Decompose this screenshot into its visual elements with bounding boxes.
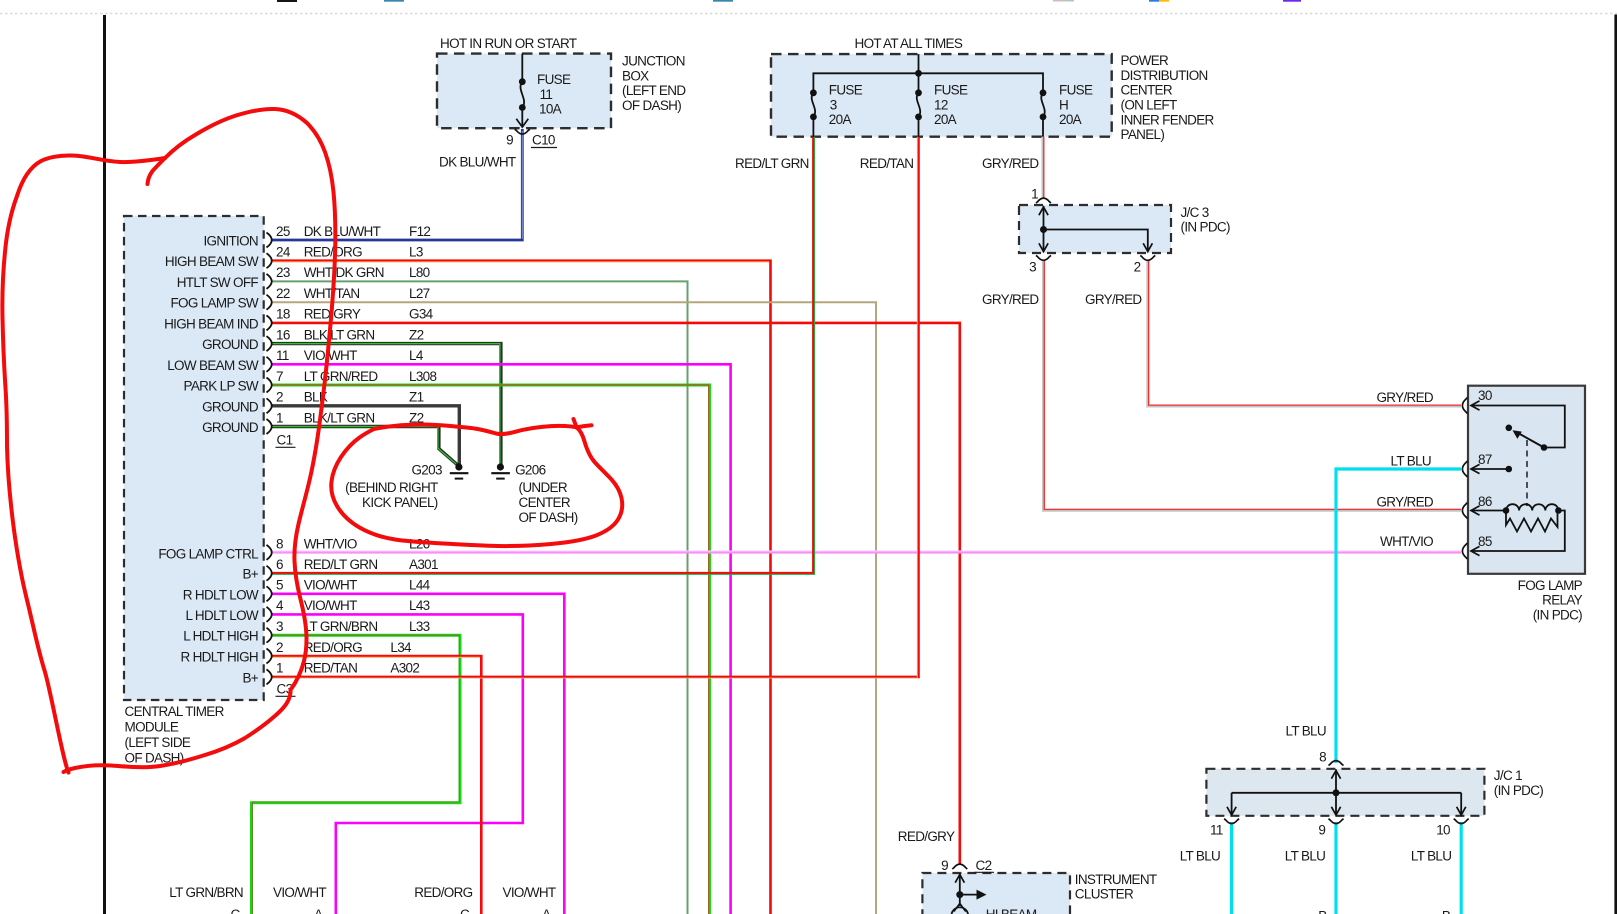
svg-text:HTLT SW OFF: HTLT SW OFF [177, 275, 259, 290]
CTM pin row 4 VIO/WHT L43 [276, 598, 430, 613]
svg-text:18: 18 [276, 307, 290, 322]
CTM pin row 23 WHT/DK GRN L80 [276, 265, 430, 280]
J/C 1 box (in PDC) [1206, 769, 1484, 816]
svg-text:L34: L34 [390, 640, 412, 655]
label GRY/RED below J/C3 pin 3 [982, 292, 1039, 307]
CTM C3 pin 3 bracket [267, 628, 272, 643]
svg-text:HI BEAM: HI BEAM [986, 907, 1037, 914]
label J/C 1 (IN PDC) [1494, 768, 1543, 798]
svg-text:24: 24 [276, 245, 291, 260]
svg-text:BLK/LT GRN: BLK/LT GRN [304, 410, 375, 425]
wire BLK/LT GRN Z2 from CTM pin 1 to G203 [271, 427, 457, 465]
wire WHT/TAN L27 from CTM pin 22 [271, 302, 876, 914]
svg-text:(UNDER: (UNDER [519, 480, 568, 495]
svg-text:20A: 20A [934, 112, 957, 127]
svg-text:B: B [1442, 909, 1451, 914]
svg-text:RED/TAN: RED/TAN [860, 156, 914, 171]
fuse 3 20A symbol [810, 89, 817, 136]
CTM pin 24 bracket [267, 253, 272, 268]
svg-text:R HDLT HIGH: R HDLT HIGH [180, 650, 258, 665]
svg-text:1: 1 [276, 661, 283, 676]
label JUNCTION BOX (LEFT END OF DASH) [622, 54, 686, 113]
label FUSE 11 10A [537, 72, 571, 116]
label GRY/RED under fuse H [982, 156, 1039, 171]
label DK BLU/WHT [439, 155, 516, 170]
svg-text:H: H [1059, 97, 1068, 112]
svg-text:HIGH BEAM SW: HIGH BEAM SW [165, 254, 259, 269]
wire RED/ORG L34 from CTM pin 2 [271, 656, 481, 914]
svg-text:FUSE: FUSE [1059, 83, 1093, 98]
svg-text:J/C 3: J/C 3 [1181, 205, 1209, 220]
CTM pin row 24 RED/ORG L3 [276, 245, 423, 260]
label FUSE 12 20A [934, 83, 968, 128]
svg-text:G206: G206 [515, 462, 545, 477]
J/C3 pin 3 connector cup [1036, 255, 1051, 260]
svg-text:G203: G203 [411, 462, 441, 477]
CTM pin row 5 VIO/WHT L44 [276, 578, 431, 593]
svg-text:CENTER: CENTER [1121, 83, 1173, 98]
svg-text:87: 87 [1478, 452, 1492, 467]
svg-text:CLUSTER: CLUSTER [1075, 887, 1134, 902]
svg-text:L4: L4 [409, 348, 424, 363]
J/C1 pin 8 connector cap [1329, 761, 1344, 766]
fuse 11 10A symbol in junction box [516, 54, 528, 127]
svg-text:8: 8 [276, 537, 283, 552]
wire RED/LT GRN A301 from CTM pin 6 to fuse 3 [271, 137, 815, 575]
CTM pin 7 bracket [267, 378, 272, 393]
label J/C1 pin 8 [1319, 750, 1326, 765]
svg-text:10A: 10A [539, 101, 562, 116]
page frame left border [103, 15, 106, 914]
svg-text:LOW BEAM SW: LOW BEAM SW [167, 358, 259, 373]
label FUSE 3 20A [829, 83, 863, 128]
svg-text:GRY/RED: GRY/RED [1376, 494, 1433, 509]
svg-text:8: 8 [1319, 750, 1326, 765]
svg-text:6: 6 [276, 557, 283, 572]
CTM C3 pin 5 bracket [267, 586, 272, 601]
wire VIO/WHT L4 from CTM pin 11 [271, 364, 731, 914]
CTM pin row 8 WHT/VIO L26 [276, 537, 430, 552]
label POWER DISTRIBUTION CENTER (ON LEFT INNER FENDER PANEL) [1121, 53, 1215, 142]
svg-text:GROUND: GROUND [202, 420, 259, 435]
J/C 3 box (in PDC) [1019, 205, 1171, 253]
relay pin 85 connector arc [1462, 543, 1467, 559]
label HI BEAM (cut off) [986, 907, 1037, 914]
relay pin 30 internal wire and switch [1471, 401, 1565, 451]
label RED/GRY above cluster [898, 829, 955, 844]
CTM pin row 6 RED/LT GRN A301 [276, 557, 438, 572]
label HOT AT ALL TIMES [855, 36, 963, 51]
svg-text:C: C [460, 907, 470, 914]
label GRY/RED at relay pin 86 [1376, 494, 1433, 509]
J/C3 internal bus with arrows [1039, 206, 1153, 252]
label LT BLU at relay pin 87 [1391, 453, 1431, 468]
CTM pin 2 bracket [267, 398, 272, 413]
label relay pin numbers 30 87 86 85 [1478, 388, 1492, 549]
svg-text:L33: L33 [409, 619, 430, 634]
svg-text:L308: L308 [409, 369, 436, 384]
svg-text:20A: 20A [1059, 112, 1082, 127]
label 9 C2 at cluster [941, 858, 994, 873]
wire WHT/DK GRN L80 from CTM pin 23 [271, 281, 688, 914]
CTM pin 22 bracket [267, 295, 272, 310]
page frame right border [1614, 15, 1617, 914]
svg-text:86: 86 [1478, 494, 1492, 509]
label LT BLU x3 below J/C1 [1180, 848, 1452, 863]
CTM pin 25 bracket [267, 233, 272, 248]
svg-text:(LEFT END: (LEFT END [622, 83, 686, 98]
svg-text:3: 3 [830, 97, 837, 112]
CTM pin row 18 RED/GRY G34 [276, 307, 434, 322]
ground G206 [491, 463, 510, 478]
svg-text:DK BLU/WHT: DK BLU/WHT [304, 224, 381, 239]
svg-text:B+: B+ [242, 670, 258, 685]
wire LT BLU from J/C1 pin 9 [1334, 822, 1337, 914]
label 9 C10 [506, 133, 557, 148]
CTM pin 18 bracket [267, 315, 272, 330]
label RED/LT GRN under fuse 3 [735, 156, 809, 171]
CTM pin row 2 RED/ORG L34 [276, 640, 412, 655]
wire WHT/VIO L26 from CTM pin 8 to relay pin 85 [271, 551, 1461, 552]
svg-text:FUSE: FUSE [537, 72, 571, 87]
label G203 (BEHIND RIGHT KICK PANEL) [345, 462, 442, 510]
fuse 12 20A symbol [915, 73, 922, 136]
CTM C3 pin 2 bracket [267, 649, 272, 664]
label connector C3 [276, 682, 296, 697]
label WHT/VIO at relay pin 85 [1380, 534, 1433, 549]
svg-text:KICK PANEL): KICK PANEL) [362, 495, 438, 510]
svg-text:PARK LP SW: PARK LP SW [184, 379, 259, 394]
svg-text:LT GRN/RED: LT GRN/RED [304, 369, 379, 384]
svg-text:11: 11 [276, 348, 289, 363]
svg-text:PANEL): PANEL) [1121, 127, 1165, 142]
label J/C 3 (IN PDC) [1181, 205, 1230, 235]
wire DK BLU/WHT F12 from C10 to CTM pin 25 [271, 129, 522, 240]
svg-text:(IN PDC): (IN PDC) [1494, 783, 1543, 798]
relay pin 85 internal wire [1471, 511, 1565, 556]
svg-text:9: 9 [1318, 822, 1325, 837]
wire LT BLU from relay pin 87 to J/C1 pin 8 [1336, 469, 1461, 763]
svg-text:3: 3 [1029, 260, 1036, 275]
wire BLK/LT GRN Z2 from CTM pin 16 to G206 [271, 344, 501, 466]
svg-text:INNER FENDER: INNER FENDER [1121, 112, 1215, 127]
svg-text:VIO/WHT: VIO/WHT [304, 578, 357, 593]
svg-text:L43: L43 [409, 598, 430, 613]
svg-text:LT BLU: LT BLU [1286, 724, 1326, 739]
label GRY/RED below J/C3 pin 2 [1085, 292, 1142, 307]
svg-text:GROUND: GROUND [202, 399, 259, 414]
CTM pin row 7 LT GRN/RED L308 [276, 369, 436, 384]
svg-text:FOG LAMP CTRL: FOG LAMP CTRL [158, 546, 259, 561]
svg-text:LT GRN/BRN: LT GRN/BRN [169, 885, 243, 900]
relay pin 87 connector arc [1462, 461, 1467, 477]
CTM pin row 22 WHT/TAN L27 [276, 286, 430, 301]
svg-text:LT BLU: LT BLU [1411, 848, 1451, 863]
svg-text:Z1: Z1 [409, 390, 424, 405]
svg-text:L44: L44 [409, 578, 431, 593]
svg-text:7: 7 [276, 369, 283, 384]
relay coil between 86 and 85 [1471, 504, 1562, 515]
svg-text:B: B [1318, 909, 1327, 914]
svg-text:HOT AT ALL TIMES: HOT AT ALL TIMES [855, 36, 963, 51]
CTM pin 1 bracket [267, 419, 272, 434]
svg-text:J/C 1: J/C 1 [1494, 768, 1522, 783]
svg-text:GRY/RED: GRY/RED [1376, 390, 1433, 405]
relay pin 87 internal wire [1471, 464, 1512, 473]
svg-text:3: 3 [276, 619, 283, 634]
svg-text:DISTRIBUTION: DISTRIBUTION [1121, 68, 1208, 83]
svg-text:2: 2 [1134, 260, 1141, 275]
label connector C1 [276, 433, 296, 448]
power distribution center box [771, 54, 1112, 137]
connector C10 cup symbol [515, 129, 530, 134]
fuse H 20A symbol [1040, 89, 1047, 136]
ground G203 [450, 463, 469, 478]
label CENTRAL TIMER MODULE (LEFT SIDE OF DASH) [125, 704, 225, 766]
svg-text:5: 5 [276, 578, 283, 593]
svg-text:11: 11 [540, 87, 553, 102]
svg-text:RED/TAN: RED/TAN [304, 661, 358, 676]
CTM pin row 11 VIO/WHT L4 [276, 348, 424, 363]
svg-text:OF DASH): OF DASH) [622, 98, 681, 113]
svg-text:11: 11 [1210, 822, 1223, 837]
relay pin 86 connector arc [1462, 503, 1467, 519]
svg-text:BOX: BOX [622, 68, 649, 83]
svg-text:VIO/WHT: VIO/WHT [304, 598, 357, 613]
svg-text:22: 22 [276, 286, 290, 301]
svg-text:L3: L3 [409, 245, 423, 260]
svg-text:A301: A301 [409, 557, 438, 572]
fog lamp relay box [1468, 386, 1585, 574]
svg-text:WHT/DK GRN: WHT/DK GRN [304, 265, 384, 280]
wire RED/GRY G34 from CTM pin 18 to instrument cluster [271, 323, 960, 864]
central timer module box [124, 216, 264, 700]
svg-text:(LEFT SIDE: (LEFT SIDE [125, 735, 191, 750]
svg-text:LT BLU: LT BLU [1391, 453, 1431, 468]
relay resistor parallel with coil [1506, 511, 1558, 532]
svg-text:RED/ORG: RED/ORG [414, 885, 472, 900]
svg-text:GRY/RED: GRY/RED [1085, 292, 1142, 307]
wire LT BLU from J/C1 pin 11 [1230, 822, 1233, 914]
svg-text:LT BLU: LT BLU [1285, 848, 1325, 863]
svg-text:OF DASH): OF DASH) [519, 510, 578, 525]
svg-text:RED/GRY: RED/GRY [898, 829, 955, 844]
svg-text:F12: F12 [409, 224, 430, 239]
label HOT IN RUN OR START [440, 36, 577, 51]
instrument cluster internal wiring [955, 874, 986, 907]
CTM C3 pin 4 bracket [267, 607, 272, 622]
svg-text:CENTRAL TIMER: CENTRAL TIMER [125, 704, 225, 719]
svg-text:DK BLU/WHT: DK BLU/WHT [439, 155, 516, 170]
svg-text:GRY/RED: GRY/RED [982, 292, 1039, 307]
svg-text:16: 16 [276, 327, 290, 342]
label LT BLU above J/C1 [1286, 724, 1326, 739]
svg-text:HOT IN RUN OR START: HOT IN RUN OR START [440, 36, 577, 51]
label B pin letters bottom right [1318, 909, 1451, 914]
svg-text:(ON LEFT: (ON LEFT [1121, 98, 1177, 113]
CTM C3 pin 6 bracket [267, 566, 272, 581]
label RED/TAN under fuse 12 [860, 156, 914, 171]
red annotation: freehand circle around grounds G203 G206 [331, 419, 622, 546]
wire GRY/RED from J/C3 pin 2 to relay pin 30 [1148, 260, 1461, 406]
svg-text:FUSE: FUSE [829, 83, 863, 98]
svg-text:2: 2 [276, 640, 283, 655]
svg-text:C1: C1 [277, 433, 293, 448]
wire GRY/RED from fuse H to J/C3 pin 1 [1042, 137, 1046, 198]
svg-text:IGNITION: IGNITION [203, 234, 258, 249]
browser toolbar fragments top strip [0, 0, 1617, 14]
svg-text:A: A [542, 907, 551, 914]
CTM pin 11 bracket [267, 357, 272, 372]
svg-text:RED/LT GRN: RED/LT GRN [735, 156, 809, 171]
svg-text:MODULE: MODULE [125, 719, 179, 734]
label J/C3 pin 3 [1029, 260, 1036, 275]
CTM pin row 1 RED/TAN A302 [276, 661, 419, 676]
red annotation: big freehand loop around CTM [2, 109, 335, 773]
svg-text:RED/ORG: RED/ORG [304, 245, 362, 260]
svg-text:WHT/VIO: WHT/VIO [1380, 534, 1433, 549]
svg-text:FUSE: FUSE [934, 83, 968, 98]
svg-text:GROUND: GROUND [202, 337, 259, 352]
svg-text:9: 9 [941, 858, 948, 873]
label GRY/RED at relay pin 30 [1376, 390, 1433, 405]
label J/C3 pin 2 [1134, 260, 1141, 275]
PDC internal bus [813, 54, 1043, 93]
wire VIO/WHT L44 from CTM pin 5 [271, 594, 564, 914]
label FUSE H 20A [1059, 83, 1093, 128]
svg-text:HIGH BEAM IND: HIGH BEAM IND [164, 316, 259, 331]
svg-text:RED/ORG: RED/ORG [304, 640, 362, 655]
CTM pin row 2 BLK Z1 [276, 390, 424, 405]
svg-text:1: 1 [1031, 187, 1038, 202]
svg-text:30: 30 [1478, 388, 1492, 403]
CTM pin 23 bracket [267, 274, 272, 289]
svg-text:BLK/LT GRN: BLK/LT GRN [304, 327, 375, 342]
svg-text:(IN PDC): (IN PDC) [1533, 608, 1582, 623]
instrument cluster box [922, 873, 1070, 914]
svg-text:POWER: POWER [1121, 53, 1170, 68]
svg-text:VIO/WHT: VIO/WHT [503, 885, 556, 900]
J/C1 pin 10 connector cup [1454, 819, 1469, 824]
svg-text:A: A [314, 907, 323, 914]
bottom wire labels LT GRN/BRN VIO/WHT RED/ORG VIO/WHT [169, 885, 556, 900]
svg-text:G34: G34 [409, 307, 434, 322]
label FOG LAMP RELAY (IN PDC) [1518, 578, 1583, 623]
svg-text:C: C [231, 907, 241, 914]
svg-text:LT GRN/BRN: LT GRN/BRN [304, 619, 378, 634]
svg-text:B+: B+ [242, 567, 258, 582]
CTM left pin-function labels C3 [158, 546, 259, 685]
wire RED/TAN A302 from CTM pin 1 to fuse 12 [271, 137, 919, 678]
svg-text:L HDLT LOW: L HDLT LOW [186, 608, 259, 623]
label G206 (UNDER CENTER OF DASH) [515, 462, 578, 525]
J/C1 internal bus with arrows [1227, 770, 1466, 816]
J/C3 pin 2 connector cup [1140, 255, 1155, 260]
instrument cluster C2 pin 9 connector cap [952, 864, 967, 869]
relay pin 30 connector arc [1462, 398, 1467, 414]
svg-text:23: 23 [276, 265, 290, 280]
wire GRY/RED from J/C3 pin 3 to relay pin 86 [1044, 260, 1462, 510]
instrument cluster HI BEAM lamp symbol (cut off) [952, 904, 969, 914]
CTM C3 pin 8 bracket [267, 545, 272, 560]
svg-text:WHT/VIO: WHT/VIO [304, 537, 357, 552]
svg-text:L27: L27 [409, 286, 430, 301]
svg-text:JUNCTION: JUNCTION [622, 54, 685, 69]
svg-text:RELAY: RELAY [1542, 593, 1583, 608]
svg-text:FOG LAMP: FOG LAMP [1518, 578, 1583, 593]
svg-text:RED/LT GRN: RED/LT GRN [304, 557, 378, 572]
svg-text:R HDLT LOW: R HDLT LOW [183, 587, 259, 602]
CTM pin row 25 DK BLU/WHT F12 [276, 224, 430, 239]
CTM pin row 3 LT GRN/BRN L33 [276, 619, 430, 634]
wire VIO/WHT L43 from CTM pin 4 [271, 614, 523, 914]
svg-text:25: 25 [276, 224, 290, 239]
label J/C3 pin 1 [1031, 187, 1038, 202]
wire BLK Z1 from CTM pin 2 to G203 [271, 406, 459, 466]
svg-text:A302: A302 [390, 661, 419, 676]
svg-text:12: 12 [934, 97, 948, 112]
svg-text:FOG LAMP SW: FOG LAMP SW [170, 296, 258, 311]
svg-text:9: 9 [506, 133, 513, 148]
svg-text:10: 10 [1436, 822, 1450, 837]
J/C1 pin 9 connector cup [1329, 819, 1344, 824]
J/C1 pin 11 connector cup [1224, 819, 1239, 824]
CTM left pin-function labels C1 [164, 234, 259, 436]
svg-text:INSTRUMENT: INSTRUMENT [1075, 872, 1157, 887]
svg-text:L HDLT HIGH: L HDLT HIGH [183, 629, 258, 644]
svg-text:VIO/WHT: VIO/WHT [304, 348, 357, 363]
junction box J/B (left end of dash) [437, 54, 611, 129]
svg-text:LT BLU: LT BLU [1180, 848, 1220, 863]
wire RED/ORG L3 from CTM pin 24 down right side [271, 261, 771, 914]
svg-text:Z2: Z2 [409, 327, 424, 342]
J/C3 pin 1 connector cap [1036, 198, 1051, 203]
svg-text:L80: L80 [409, 265, 430, 280]
CTM C3 pin 1 bracket [267, 669, 272, 684]
svg-text:(IN PDC): (IN PDC) [1181, 220, 1230, 235]
svg-text:1: 1 [276, 410, 283, 425]
svg-text:VIO/WHT: VIO/WHT [273, 885, 326, 900]
svg-text:GRY/RED: GRY/RED [982, 156, 1039, 171]
CTM pin row 1 BLK/LT GRN Z2 [276, 410, 424, 425]
label J/C1 pins 11 9 10 [1210, 822, 1450, 837]
wire LT GRN/RED L308 from CTM pin 7 [271, 385, 710, 914]
svg-text:2: 2 [276, 390, 283, 405]
svg-text:C10: C10 [532, 133, 555, 148]
CTM pin row 16 BLK/LT GRN Z2 [276, 327, 424, 342]
label INSTRUMENT CLUSTER [1075, 872, 1157, 902]
svg-text:(BEHIND RIGHT: (BEHIND RIGHT [345, 480, 438, 495]
wire LT GRN/BRN L33 from CTM pin 3 [252, 635, 461, 914]
bottom pin letters C A C A (cut off) [231, 907, 552, 914]
CTM pin 16 bracket [267, 336, 272, 351]
wire LT BLU from J/C1 pin 10 [1460, 822, 1463, 914]
svg-text:20A: 20A [829, 112, 852, 127]
svg-text:4: 4 [276, 598, 284, 613]
svg-text:C2: C2 [976, 858, 992, 873]
svg-text:85: 85 [1478, 534, 1492, 549]
svg-text:CENTER: CENTER [519, 495, 571, 510]
relay switch actuator dashed line [1526, 440, 1528, 506]
